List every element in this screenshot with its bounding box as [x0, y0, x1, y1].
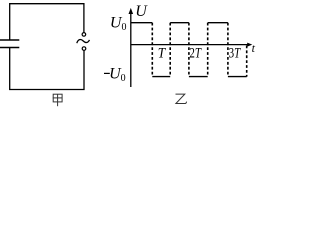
transition (dashed) at t=T [169, 23, 171, 77]
transition (dashed) at t=3T/2 [188, 23, 190, 77]
y-axis arrowhead [129, 8, 134, 14]
svg-text:t: t [252, 41, 256, 55]
transition (dashed) at t=5T/2 [227, 23, 229, 77]
transition marker (dashed) at t=3T below axis [246, 46, 248, 77]
wire: from AC source bottom terminal down, across bottom conductor, up to capacitor bottom plate [10, 48, 84, 90]
square wave low segment 2 (3T/2 to 2T) at -U0 [189, 76, 208, 78]
AC source terminal (top circle) [82, 33, 86, 37]
svg-text:T: T [158, 46, 167, 62]
y-axis (U axis) [130, 12, 132, 88]
capacitor C (bottom plate) [0, 47, 19, 49]
AC source symbol ~ [77, 40, 90, 44]
svg-text:U0: U0 [110, 15, 127, 33]
square wave high segment 2 (T to 3T/2) at +U0 [170, 22, 189, 24]
label -U0 (minus sign drawn) [104, 72, 110, 74]
svg-text:U: U [135, 3, 148, 20]
x-axis arrowhead [247, 43, 252, 47]
label 乙 (figure B) [176, 94, 187, 103]
svg-text:3T: 3T [229, 46, 242, 62]
x-axis (t axis) [131, 44, 249, 46]
AC source terminal (bottom circle) [82, 47, 86, 51]
square wave low segment 1 (T/2 to T) at -U0 [152, 76, 170, 78]
svg-text:U0: U0 [109, 66, 126, 84]
label 甲 (figure A) [53, 94, 63, 106]
transition (dashed) at t=2T [207, 23, 209, 77]
capacitor C (top plate) [0, 39, 19, 41]
square wave high segment 3 (2T to 5T/2) at +U0 [208, 22, 228, 24]
transition (dashed) at t=T/2 [151, 23, 153, 77]
square wave low segment 3 (5T/2 to 3T) at -U0 [228, 76, 247, 78]
square wave high segment 1 (0 to T/2) at +U0 [131, 22, 153, 24]
svg-text:2T: 2T [189, 46, 202, 62]
wire: from capacitor top plate up, across top conductor, down to AC source top terminal [10, 4, 84, 41]
